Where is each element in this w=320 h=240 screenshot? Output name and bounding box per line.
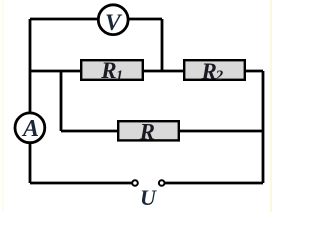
wire voltmeter drop to R1-R2 junction — [161, 19, 164, 71]
wire bottom right from terminal — [165, 182, 263, 185]
wire top horizontal through voltmeter — [30, 18, 162, 21]
resistor R2 — [184, 59, 245, 84]
wire R1-R2 row horizontal — [30, 70, 263, 73]
resistor R1 — [81, 58, 143, 83]
svg-text:1: 1 — [116, 68, 123, 83]
wire branch vertical from R1 row down to R row — [60, 71, 63, 131]
svg-text:R: R — [139, 120, 155, 145]
resistor R — [118, 120, 179, 145]
svg-text:V: V — [105, 10, 123, 36]
svg-text:R: R — [100, 58, 116, 83]
svg-text:R: R — [201, 59, 217, 84]
wire R row horizontal — [61, 130, 263, 133]
svg-text:2: 2 — [215, 68, 224, 84]
terminal left (open circle) — [132, 180, 138, 186]
wire right vertical — [262, 71, 265, 183]
terminal right (open circle) — [159, 180, 165, 186]
label U (source voltage) — [140, 185, 157, 210]
voltmeter V — [98, 5, 128, 36]
svg-text:U: U — [140, 185, 157, 210]
ammeter A — [15, 113, 45, 143]
wire bottom left to terminal — [30, 182, 132, 185]
svg-text:A: A — [21, 116, 39, 142]
wire left vertical (top-left corner down to bottom-left corner) — [29, 19, 32, 183]
